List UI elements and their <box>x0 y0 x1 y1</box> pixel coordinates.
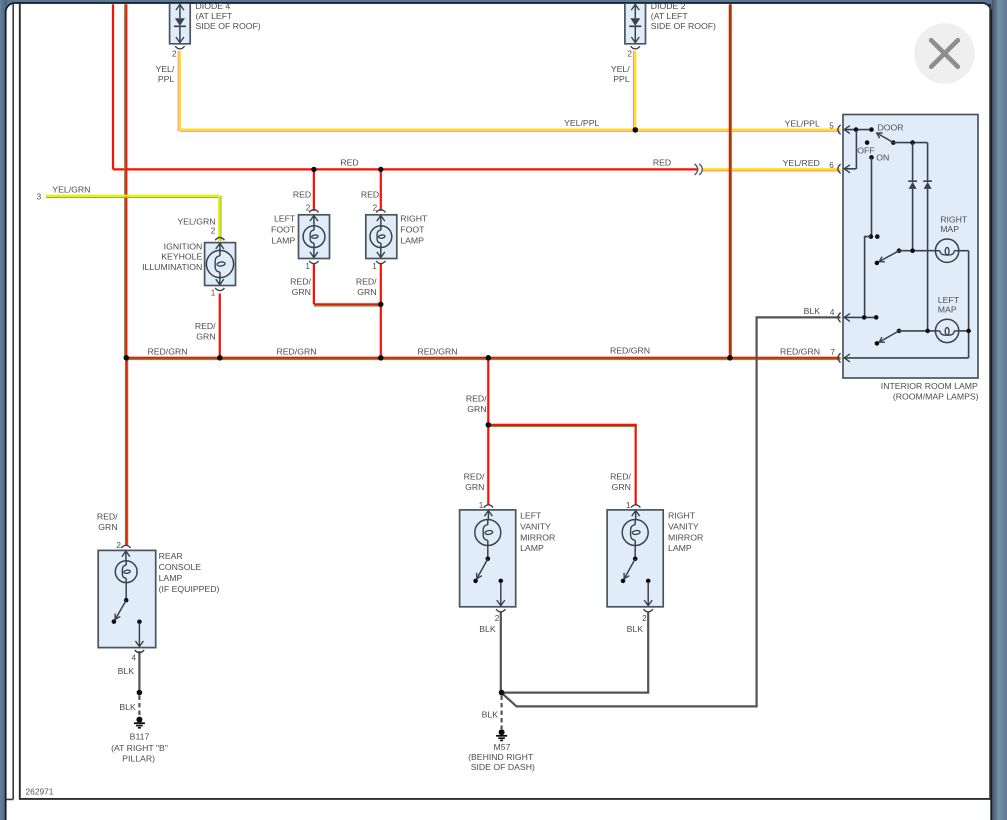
svg-text:BLK: BLK <box>627 624 644 634</box>
node pin4 b <box>874 315 879 320</box>
svg-text:REAR: REAR <box>159 551 183 561</box>
junction RED/GRN bus left end <box>124 355 130 361</box>
component box INTERIOR ROOM LAMP <box>843 115 978 379</box>
wire right map bulb to right rail <box>959 250 969 252</box>
pin 1 connector ignition keyhole <box>215 288 224 291</box>
svg-text:RED: RED <box>293 190 311 200</box>
svg-text:RED/GRN: RED/GRN <box>147 346 187 356</box>
svg-text:RED: RED <box>340 158 358 168</box>
svg-text:2: 2 <box>495 614 500 623</box>
junction RED/GRN at right riser <box>727 355 733 361</box>
wire RED/GRN from right foot lamp pin 1 <box>380 263 382 358</box>
svg-text:1: 1 <box>479 501 484 510</box>
svg-text:GRN: GRN <box>357 287 376 297</box>
wire BLK dashed to ground M57 <box>501 696 503 730</box>
lamp box RIGHT FOOT LAMP <box>366 215 397 259</box>
svg-text:INTERIOR ROOM LAMP: INTERIOR ROOM LAMP <box>881 381 978 391</box>
wire YEL/PPL horizontal to interior lamp pin 5 <box>180 130 841 132</box>
svg-text:DOOR: DOOR <box>878 123 904 133</box>
wire RED horizontal bus <box>113 168 698 170</box>
svg-text:(ROOM/MAP LAMPS): (ROOM/MAP LAMPS) <box>893 392 979 402</box>
wire from door blade to diodes <box>894 142 928 144</box>
wire left map bulb to right rail <box>959 330 969 332</box>
svg-text:FOOT: FOOT <box>400 224 425 234</box>
ground B117 <box>136 717 142 723</box>
junction RED at left foot lamp <box>311 167 316 172</box>
bulb RIGHT MAP <box>935 239 958 262</box>
diode D4 symbol <box>179 4 181 18</box>
wire common down to pin 4 row <box>865 237 871 318</box>
right vanity switch <box>633 557 638 562</box>
wire down to interior diode 1 <box>912 143 914 182</box>
bulb LEFT MAP <box>935 319 958 342</box>
svg-text:(AT LEFT: (AT LEFT <box>651 11 689 21</box>
svg-text:(BEHIND RIGHT: (BEHIND RIGHT <box>468 752 534 762</box>
left foot lamp bulb <box>313 216 315 226</box>
svg-text:LAMP: LAMP <box>272 235 296 245</box>
pin 1 connector right foot lamp <box>376 261 385 264</box>
svg-text:B117: B117 <box>130 732 150 742</box>
svg-text:YEL/GRN: YEL/GRN <box>177 217 215 227</box>
ground M57 <box>499 729 505 735</box>
wire BLK rear console pin 4 to splice <box>138 651 140 693</box>
svg-text:ILLUMINATION: ILLUMINATION <box>142 262 202 272</box>
right rail down <box>968 251 970 358</box>
svg-text:GRN: GRN <box>98 522 117 532</box>
svg-text:KEYHOLE: KEYHOLE <box>161 252 202 262</box>
svg-text:ON: ON <box>876 153 889 163</box>
wire BLK right vanity pin 2 down and left <box>503 612 649 693</box>
svg-text:YEL/: YEL/ <box>155 64 174 74</box>
close button <box>914 23 975 84</box>
svg-text:(AT LEFT: (AT LEFT <box>196 11 234 21</box>
interior diode 2 <box>923 180 932 182</box>
svg-text:4: 4 <box>132 654 137 663</box>
junction RED/GRN at foot lamp drop <box>378 355 384 361</box>
svg-text:YEL/: YEL/ <box>611 64 630 74</box>
wire RED drop to left foot lamp pin 2 <box>313 169 315 211</box>
wire YEL/GRN down to ignition keyhole pin 2 <box>220 196 222 241</box>
right map switch wire to bulb <box>899 250 935 252</box>
svg-text:MAP: MAP <box>940 224 959 234</box>
svg-text:GRN: GRN <box>196 332 215 342</box>
svg-text:SIDE OF DASH): SIDE OF DASH) <box>471 762 535 772</box>
svg-text:MIRROR: MIRROR <box>520 532 555 542</box>
wire pin6 internal <box>844 168 857 170</box>
junction RED/GRN at vanity drop <box>486 355 492 361</box>
svg-text:2: 2 <box>116 541 121 550</box>
svg-text:RED/: RED/ <box>356 277 377 287</box>
svg-text:OFF: OFF <box>857 146 874 156</box>
pin 2 connector left vanity <box>496 609 505 612</box>
node ON contact <box>869 155 874 160</box>
wire from ON contact down to map switch common <box>871 157 873 236</box>
wire YEL/PPL vertical from diode 4 pin 2 <box>177 51 179 131</box>
svg-text:YEL/RED: YEL/RED <box>783 158 820 168</box>
wire RED/GRN drop to rear console lamp pin 2 <box>127 358 129 546</box>
off-page connector arcs <box>695 164 703 175</box>
svg-text:2: 2 <box>642 614 647 623</box>
svg-text:MIRROR: MIRROR <box>668 532 703 542</box>
junction right map diode feed <box>910 248 915 253</box>
svg-text:FOOT: FOOT <box>271 224 296 234</box>
svg-text:IGNITION: IGNITION <box>164 241 203 251</box>
svg-text:GRN: GRN <box>465 482 484 492</box>
svg-text:3: 3 <box>37 193 42 202</box>
lamp box IGNITION KEYHOLE ILLUMINATION <box>205 243 236 286</box>
pin 4 connector <box>838 313 841 322</box>
pin 5 connector <box>838 125 841 134</box>
right vanity bulb <box>635 511 637 520</box>
svg-text:PPL: PPL <box>158 74 175 84</box>
junction BLK at M57 <box>499 690 505 696</box>
lamp box RIGHT VANITY MIRROR LAMP <box>607 510 663 607</box>
wire RED/GRN from left foot lamp pin 1 <box>313 263 315 304</box>
lamp box REAR CONSOLE LAMP <box>98 550 156 647</box>
svg-text:7: 7 <box>830 348 835 357</box>
svg-text:LAMP: LAMP <box>159 573 183 583</box>
pin 7 internal wire <box>844 357 969 359</box>
junction RED/GRN vanity split <box>486 422 492 428</box>
svg-text:LAMP: LAMP <box>520 543 544 553</box>
pin 2 connector right foot lamp <box>376 210 385 213</box>
door switch blade <box>891 140 896 145</box>
svg-text:LEFT: LEFT <box>520 511 542 521</box>
svg-text:6: 6 <box>829 161 834 170</box>
lamp box LEFT FOOT LAMP <box>299 215 330 259</box>
svg-text:SIDE OF ROOF): SIDE OF ROOF) <box>196 21 261 31</box>
pin 1 connector left vanity <box>484 505 493 508</box>
svg-text:RED/GRN: RED/GRN <box>417 346 457 356</box>
svg-text:RED/GRN: RED/GRN <box>276 346 316 356</box>
wire down to interior diode 2 <box>927 143 929 182</box>
svg-text:2: 2 <box>211 226 216 235</box>
svg-text:CONSOLE: CONSOLE <box>159 562 202 572</box>
svg-text:PILLAR): PILLAR) <box>122 754 155 764</box>
svg-text:RED: RED <box>361 190 379 200</box>
pin 7 connector <box>838 353 841 362</box>
wire RED vertical at left <box>112 4 114 169</box>
splice dot B117 wire <box>137 690 143 696</box>
svg-text:2: 2 <box>306 203 311 212</box>
junction RED at right foot lamp <box>378 167 383 172</box>
svg-text:LAMP: LAMP <box>400 235 424 245</box>
junction left map diode feed <box>925 329 930 334</box>
svg-text:262971: 262971 <box>26 787 54 797</box>
svg-text:MAP: MAP <box>938 305 957 315</box>
svg-text:(IF EQUIPPED): (IF EQUIPPED) <box>159 584 220 594</box>
right map switch <box>897 248 902 253</box>
svg-text:2: 2 <box>172 50 177 59</box>
node DOOR contact <box>869 127 874 132</box>
svg-text:1: 1 <box>372 262 377 271</box>
wire YEL/PPL vertical from diode 2 pin 2 <box>633 51 635 131</box>
svg-text:RED/: RED/ <box>97 512 118 522</box>
svg-text:4: 4 <box>830 308 835 317</box>
node OFF contact <box>865 140 870 145</box>
svg-text:2: 2 <box>373 203 378 212</box>
lamp box LEFT VANITY MIRROR LAMP <box>460 510 516 607</box>
pin 2 connector of diode D4 <box>175 46 184 49</box>
left vanity switch contact <box>499 579 504 584</box>
node map switch common b <box>875 234 880 239</box>
pin 2 connector right vanity <box>644 609 653 612</box>
pin 2 connector ignition keyhole <box>215 238 224 241</box>
junction RED/GRN at ignition keyhole <box>217 355 223 361</box>
wire YEL/GRN horizontal, pin 3 <box>46 196 219 198</box>
wire BLK left vanity pin 2 down <box>500 612 502 693</box>
left map switch wire to bulb <box>899 330 935 332</box>
left map switch <box>897 329 902 334</box>
svg-text:RED/: RED/ <box>610 471 631 481</box>
svg-text:YEL/GRN: YEL/GRN <box>52 184 90 194</box>
wire RED/GRN down to right vanity pin 1 <box>635 425 637 506</box>
svg-text:RIGHT: RIGHT <box>940 214 968 224</box>
svg-text:RED/: RED/ <box>466 394 487 404</box>
pin 1 connector left foot lamp <box>309 261 318 264</box>
svg-text:1: 1 <box>626 501 631 510</box>
pin 4 internal wire <box>844 316 877 318</box>
svg-text:1: 1 <box>211 289 216 298</box>
svg-text:M57: M57 <box>494 742 511 752</box>
svg-text:RIGHT: RIGHT <box>668 511 696 521</box>
svg-text:SIDE OF ROOF): SIDE OF ROOF) <box>651 21 716 31</box>
svg-text:RIGHT: RIGHT <box>400 214 428 224</box>
svg-text:LEFT: LEFT <box>274 214 296 224</box>
svg-text:(AT RIGHT "B": (AT RIGHT "B" <box>111 743 168 753</box>
right foot lamp bulb <box>380 216 382 226</box>
svg-text:5: 5 <box>829 121 834 130</box>
interior diode 1 <box>908 180 917 182</box>
rear console switch <box>124 598 129 603</box>
svg-text:YEL/PPL: YEL/PPL <box>785 118 820 128</box>
wire RED/GRN vertical from top left <box>124 4 126 356</box>
svg-text:BLK: BLK <box>482 709 499 719</box>
ignition keyhole bulb <box>219 244 221 252</box>
svg-text:RED/: RED/ <box>195 321 216 331</box>
pin 6 connector <box>838 164 841 173</box>
svg-text:2: 2 <box>627 50 632 59</box>
svg-text:LEFT: LEFT <box>938 295 960 305</box>
svg-text:GRN: GRN <box>467 404 486 414</box>
node right rail at left map <box>966 329 971 334</box>
rear console bulb <box>125 551 127 561</box>
wire BLK dashed to ground B117 <box>138 696 140 718</box>
diode D2 box <box>625 4 646 44</box>
svg-text:BLK: BLK <box>804 306 821 316</box>
page edge line <box>7 4 14 800</box>
junction at diode 1 feed <box>910 140 915 145</box>
wire RED/GRN drop to vanity lamps <box>487 358 489 506</box>
junction YEL/PPL at diode 2 drop <box>633 127 639 133</box>
svg-text:BLK: BLK <box>479 624 496 634</box>
wire RED drop to right foot lamp pin 2 <box>380 169 382 211</box>
pin 2 connector of diode D2 <box>631 46 640 49</box>
svg-text:BLK: BLK <box>118 666 135 676</box>
left vanity switch <box>486 557 491 562</box>
svg-text:RED/GRN: RED/GRN <box>610 345 650 355</box>
svg-text:RED: RED <box>653 158 671 168</box>
svg-text:YEL/PPL: YEL/PPL <box>564 118 599 128</box>
wire RED/GRN vertical from top right <box>731 4 733 356</box>
svg-text:RED/: RED/ <box>290 277 311 287</box>
diode D4 box <box>170 4 191 44</box>
node pin4 a <box>862 315 867 320</box>
wire RED/GRN horizontal bus <box>126 359 840 361</box>
right vanity switch contact <box>646 579 651 584</box>
left vanity bulb <box>487 511 489 520</box>
wire BLK from interior lamp pin 4 <box>503 317 840 706</box>
svg-text:GRN: GRN <box>292 287 311 297</box>
diode D2 symbol <box>634 4 636 18</box>
node common pin5 <box>854 127 859 132</box>
wire RED/GRN horizontal to right vanity lamp <box>488 426 635 428</box>
svg-text:LAMP: LAMP <box>668 543 692 553</box>
svg-text:GRN: GRN <box>612 482 631 492</box>
svg-text:RED/: RED/ <box>464 471 485 481</box>
svg-text:DIODE 4: DIODE 4 <box>196 1 231 11</box>
wire RED/GRN from ignition keyhole pin 1 <box>219 294 221 358</box>
svg-text:VANITY: VANITY <box>668 521 699 531</box>
pin 1 connector right vanity <box>631 505 640 508</box>
rear console switch contact <box>137 620 142 625</box>
svg-text:RED/GRN: RED/GRN <box>780 346 820 356</box>
node map switch common a <box>869 234 874 239</box>
pin 4 connector rear console <box>135 650 144 653</box>
junction RED/GRN foot lamps <box>378 302 383 307</box>
pin 5 internal wire <box>844 129 872 131</box>
svg-text:VANITY: VANITY <box>520 521 551 531</box>
wire YEL/RED to interior lamp pin 6 <box>703 170 841 172</box>
pin 2 connector left foot lamp <box>309 210 318 213</box>
svg-text:BLK: BLK <box>119 702 136 712</box>
svg-text:1: 1 <box>305 262 310 271</box>
pin 2 connector rear console <box>121 545 130 548</box>
svg-text:DIODE 2: DIODE 2 <box>651 1 686 11</box>
svg-text:PPL: PPL <box>613 74 630 84</box>
